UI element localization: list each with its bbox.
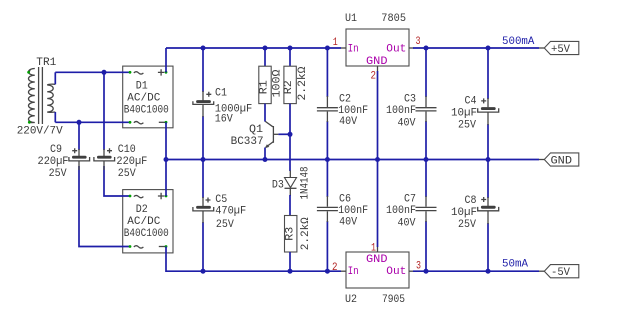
svg-text:Out: Out bbox=[386, 266, 406, 278]
junction dot secondary top / C10 bbox=[102, 70, 107, 75]
svg-text:AC/DC: AC/DC bbox=[127, 216, 160, 228]
capacitor C10 bbox=[94, 148, 115, 170]
pin dots D2 bbox=[129, 195, 132, 198]
wire D1 - to GND rail bbox=[165, 122, 167, 159]
svg-text:C6: C6 bbox=[339, 194, 351, 206]
svg-text:1: 1 bbox=[333, 37, 338, 49]
D1 ~ symbol top bbox=[134, 72, 144, 74]
svg-text:BC337: BC337 bbox=[231, 136, 264, 148]
svg-text:In: In bbox=[348, 44, 359, 56]
svg-text:C5: C5 bbox=[215, 194, 227, 206]
wire C3 column bbox=[425, 48, 427, 97]
wire C5 column bbox=[202, 160, 204, 199]
svg-text:C2: C2 bbox=[339, 94, 351, 106]
svg-text:B40C1000: B40C1000 bbox=[124, 105, 169, 117]
wire R2 to base node bbox=[289, 104, 291, 135]
svg-text:U1: U1 bbox=[345, 13, 357, 25]
svg-text:500mA: 500mA bbox=[502, 36, 535, 48]
svg-text:Out: Out bbox=[386, 43, 406, 55]
resistor R3 bbox=[285, 216, 297, 253]
wire top rail bbox=[166, 47, 341, 49]
svg-text:2.2kΩ: 2.2kΩ bbox=[297, 66, 309, 100]
net flag +5V bbox=[539, 41, 579, 56]
junction dot secondary bottom / C9 bbox=[77, 120, 82, 125]
svg-text:220µF: 220µF bbox=[38, 156, 69, 168]
svg-text:10µF: 10µF bbox=[451, 207, 477, 219]
wire R3 to bottom rail bbox=[289, 252, 291, 271]
transformer core bbox=[38, 67, 40, 124]
U1 pin 2 stub bbox=[377, 66, 379, 71]
wire secondary bottom riser bbox=[54, 112, 56, 122]
svg-text:100Ω: 100Ω bbox=[271, 69, 283, 97]
wire C6 column bbox=[326, 160, 328, 198]
svg-text:16V: 16V bbox=[215, 113, 233, 125]
svg-text:25V: 25V bbox=[118, 168, 136, 180]
net flag -5V bbox=[539, 265, 579, 280]
capacitor C2 bbox=[317, 96, 338, 122]
svg-text:GND: GND bbox=[366, 254, 388, 266]
wire secondary bottom to D1 ~ pin bbox=[55, 121, 130, 123]
junction dots bottom rail bbox=[201, 269, 206, 274]
svg-text:470µF: 470µF bbox=[215, 206, 246, 218]
capacitor C8 bbox=[478, 197, 499, 224]
wire D2 + to GND rail bbox=[165, 160, 167, 197]
wire GND rail bbox=[166, 159, 539, 161]
svg-text:40V: 40V bbox=[339, 116, 357, 128]
wire C9 column bbox=[78, 122, 80, 150]
wire D3 to R3 bbox=[289, 195, 291, 216]
transformer TR1 primary winding bbox=[28, 68, 34, 122]
capacitor C1 bbox=[193, 91, 214, 117]
wire -5V rail bbox=[413, 270, 539, 272]
wire U2 pin1 to GND rail bbox=[377, 160, 379, 248]
svg-text:R2: R2 bbox=[283, 80, 295, 94]
svg-text:25V: 25V bbox=[458, 120, 476, 132]
D2 ~ symbol bottom bbox=[134, 246, 144, 248]
svg-text:40V: 40V bbox=[398, 218, 416, 230]
resistor R1 bbox=[259, 66, 271, 103]
wire C8 column bbox=[487, 160, 489, 199]
svg-text:50mA: 50mA bbox=[502, 259, 528, 271]
wire D2 - to bottom rail bbox=[166, 247, 341, 272]
wire C7 column bbox=[425, 160, 427, 198]
svg-text:C10: C10 bbox=[118, 144, 136, 156]
rectifier D1 box bbox=[123, 66, 173, 128]
svg-text:40V: 40V bbox=[339, 217, 357, 229]
svg-text:C1: C1 bbox=[215, 88, 227, 100]
junction dots +5V rail bbox=[424, 46, 429, 51]
svg-text:R3: R3 bbox=[284, 227, 296, 241]
capacitor C3 bbox=[416, 96, 437, 122]
regulator U1 box bbox=[346, 29, 409, 66]
wire Q1 base to node bbox=[278, 133, 290, 135]
svg-text:1N4148: 1N4148 bbox=[300, 167, 312, 200]
wire secondary top riser bbox=[54, 72, 56, 84]
svg-text:GND: GND bbox=[551, 155, 573, 167]
U1 pin 3 stub bbox=[409, 47, 414, 49]
D1 - symbol bbox=[159, 121, 165, 123]
svg-text:220µF: 220µF bbox=[116, 156, 147, 168]
svg-text:-5V: -5V bbox=[551, 267, 570, 279]
pin dot TR1 primary bottom bbox=[28, 121, 31, 124]
svg-text:B40C1000: B40C1000 bbox=[124, 228, 169, 240]
svg-text:2: 2 bbox=[371, 71, 377, 83]
svg-text:25V: 25V bbox=[49, 168, 67, 180]
svg-text:C7: C7 bbox=[404, 194, 416, 206]
svg-text:40V: 40V bbox=[398, 118, 416, 130]
wire Q1 emitter to GND rail bbox=[264, 148, 266, 160]
svg-text:220V/7V: 220V/7V bbox=[17, 125, 63, 137]
capacitor C6 bbox=[317, 196, 338, 222]
U2 pin 3 stub bbox=[409, 270, 414, 272]
svg-text:2: 2 bbox=[332, 262, 338, 274]
svg-text:25V: 25V bbox=[458, 219, 476, 231]
junction dots top rail bbox=[201, 46, 206, 51]
diode D3 bbox=[285, 171, 297, 197]
U2 pin 2 stub bbox=[341, 270, 346, 272]
capacitor C4 bbox=[478, 98, 499, 125]
svg-text:7805: 7805 bbox=[381, 13, 406, 25]
capacitor C7 bbox=[416, 196, 437, 222]
D2 - symbol bbox=[159, 246, 165, 248]
svg-text:2.2kΩ: 2.2kΩ bbox=[300, 217, 312, 250]
D2 + symbol bbox=[158, 193, 164, 199]
svg-text:100nF: 100nF bbox=[386, 105, 416, 117]
wire D1 + to top rail bbox=[165, 48, 167, 72]
U2 pin 1 stub bbox=[377, 247, 379, 252]
svg-text:AC/DC: AC/DC bbox=[127, 93, 160, 105]
svg-text:C3: C3 bbox=[404, 94, 416, 106]
wire U1 pin2 to GND rail bbox=[377, 71, 379, 160]
svg-text:100nF: 100nF bbox=[338, 205, 368, 217]
transformer TR1 secondary winding bbox=[47, 84, 55, 112]
wire C1 column bbox=[202, 48, 204, 92]
svg-text:C9: C9 bbox=[50, 144, 62, 156]
wire C4 column bbox=[487, 48, 489, 99]
wire base node down across GND bbox=[289, 134, 291, 171]
pin dot TR1 primary top bbox=[27, 71, 30, 74]
capacitor C5 bbox=[193, 197, 214, 223]
D2 ~ symbol top bbox=[134, 195, 144, 197]
svg-text:D1: D1 bbox=[136, 80, 148, 92]
pin dots D1 bbox=[129, 71, 132, 74]
wire secondary top to D1 ~ pin bbox=[55, 71, 130, 73]
resistor R2 bbox=[284, 66, 296, 103]
svg-text:C4: C4 bbox=[465, 96, 477, 108]
svg-text:3: 3 bbox=[416, 36, 421, 48]
svg-text:U2: U2 bbox=[345, 294, 357, 306]
wire R1 to Q1 collector bbox=[264, 104, 266, 122]
wire +5V rail bbox=[413, 47, 539, 49]
wire C10 column bbox=[103, 72, 105, 150]
wire C2 column bbox=[326, 48, 328, 97]
wire R2 column top bbox=[289, 48, 291, 66]
svg-text:1: 1 bbox=[371, 243, 376, 255]
net flag GND bbox=[539, 153, 579, 168]
wire R1 column top bbox=[264, 48, 266, 66]
junction dot base node bbox=[288, 132, 293, 137]
transistor Q1 bbox=[265, 121, 279, 148]
capacitor C9 bbox=[69, 148, 90, 170]
svg-text:100nF: 100nF bbox=[386, 205, 416, 217]
svg-text:D3: D3 bbox=[272, 179, 284, 191]
svg-text:100nF: 100nF bbox=[338, 105, 368, 117]
svg-text:R1: R1 bbox=[259, 80, 271, 94]
rectifier D2 box bbox=[123, 190, 173, 253]
svg-text:TR1: TR1 bbox=[36, 57, 56, 69]
svg-text:Q1: Q1 bbox=[249, 124, 263, 136]
svg-text:7905: 7905 bbox=[382, 294, 405, 306]
D1 + symbol bbox=[158, 69, 164, 75]
svg-text:+5V: +5V bbox=[551, 44, 570, 56]
regulator U2 box bbox=[346, 252, 409, 288]
svg-text:D2: D2 bbox=[136, 204, 148, 216]
junction dots GND rail bbox=[164, 157, 169, 162]
svg-text:25V: 25V bbox=[216, 219, 234, 231]
svg-text:10µF: 10µF bbox=[451, 108, 477, 120]
U1 pin 1 stub bbox=[341, 47, 346, 49]
svg-text:C8: C8 bbox=[465, 195, 477, 207]
D1 ~ symbol bottom bbox=[134, 122, 144, 124]
svg-text:In: In bbox=[348, 266, 359, 278]
